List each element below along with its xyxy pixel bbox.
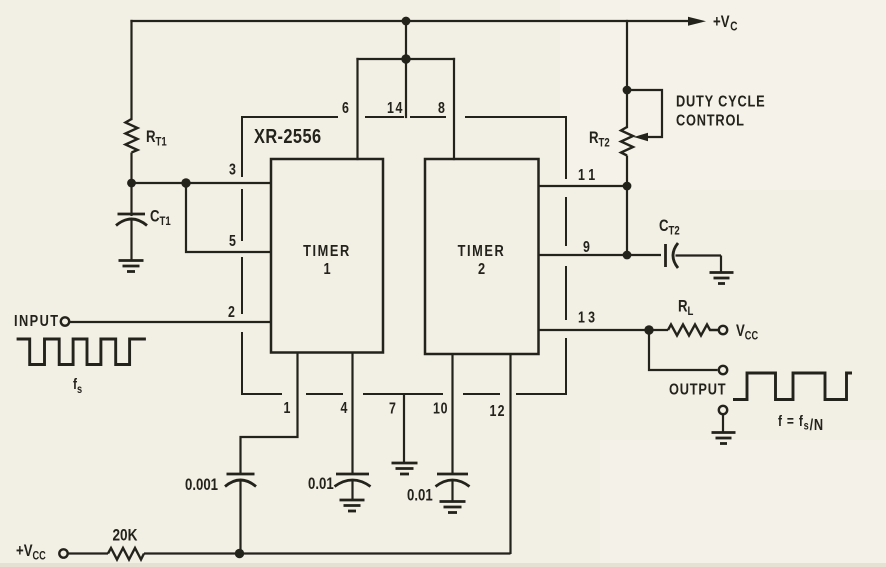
svg-text:10: 10	[433, 399, 448, 417]
svg-text:2: 2	[478, 261, 485, 279]
wire left rail down to RT1	[130, 21, 132, 119]
svg-text:14: 14	[387, 99, 404, 117]
terminal input	[61, 317, 69, 325]
svg-text:0.001: 0.001	[185, 476, 218, 495]
capacitor CT1	[116, 183, 147, 260]
node dot pin3/pin5	[181, 178, 190, 187]
wire output branch	[649, 330, 718, 370]
wire bus pins 6-14-8	[358, 58, 455, 60]
svg-text:9: 9	[583, 238, 590, 256]
node dot pin 13	[644, 325, 653, 334]
svg-text:CONTROL: CONTROL	[676, 112, 745, 130]
wire pin 12	[509, 354, 511, 554]
wire pin 5 jog	[186, 183, 271, 252]
capacitor C 0.01 (pin 4)	[335, 474, 371, 500]
wire RT2 branch from rail	[626, 21, 628, 127]
wire pin 7	[403, 394, 405, 463]
resistor RT1	[126, 119, 138, 153]
resistor 20K	[108, 548, 144, 560]
svg-text:7: 7	[389, 399, 396, 417]
timer 1 box U1a	[271, 159, 383, 353]
svg-text:5: 5	[229, 232, 236, 250]
wire bottom rail left	[68, 552, 108, 554]
svg-text:1: 1	[284, 399, 291, 417]
wire pin 8	[453, 59, 455, 159]
node dot pin 11	[623, 182, 632, 191]
node dot RT1/CT1	[127, 179, 136, 188]
svg-text:INPUT: INPUT	[14, 313, 60, 331]
wire pin 14	[405, 59, 407, 117]
node dot top rail	[402, 17, 411, 26]
svg-text:DUTY CYCLE: DUTY CYCLE	[676, 93, 765, 111]
terminal output	[719, 366, 727, 374]
ground pin 4 cap	[340, 500, 365, 511]
wire pin 11	[539, 185, 628, 187]
node dot bottom rail	[235, 549, 244, 558]
terminal +Vcc	[59, 549, 67, 557]
svg-text:1: 1	[323, 261, 330, 279]
svg-text:OUTPUT: OUTPUT	[669, 381, 726, 399]
svg-text:6: 6	[342, 99, 349, 117]
svg-text:XR-2556: XR-2556	[254, 124, 321, 147]
svg-text:20K: 20K	[113, 526, 138, 545]
svg-text:0.01: 0.01	[407, 486, 433, 505]
arrow +Vc	[688, 17, 706, 26]
potentiometer RT2	[621, 127, 633, 156]
node dot bus	[401, 54, 410, 63]
ground output	[712, 433, 736, 444]
ground below CT2	[710, 273, 734, 284]
svg-text:2: 2	[228, 303, 235, 321]
wire pin 2 input	[70, 321, 272, 323]
svg-text:4: 4	[341, 399, 348, 417]
capacitor CT2	[666, 243, 722, 272]
timer 2 box U1b	[425, 159, 539, 354]
svg-text:8: 8	[438, 99, 445, 117]
svg-text:0.01: 0.01	[308, 475, 334, 494]
ground pin 10 cap	[440, 502, 466, 513]
input waveform fs	[17, 339, 146, 365]
wire pin 1 jog	[241, 353, 298, 474]
wire top center drop	[405, 21, 407, 59]
output waveform	[733, 373, 852, 400]
node dot pot top	[623, 86, 632, 95]
resistor RL	[668, 325, 719, 336]
wire pin 3	[132, 182, 272, 184]
svg-text:TIMER: TIMER	[303, 243, 351, 261]
wire top +Vc rail	[132, 20, 690, 22]
wire RT1 to node	[130, 153, 132, 184]
wire bottom rail	[144, 552, 511, 554]
wire to output ground	[722, 415, 724, 433]
svg-text:3: 3	[229, 160, 236, 178]
wire RT2 down	[626, 156, 628, 256]
ground below CT1	[119, 261, 144, 272]
svg-text:12: 12	[490, 402, 506, 420]
terminal Vcc	[719, 326, 727, 334]
svg-text:11: 11	[578, 166, 599, 184]
svg-text:TIMER: TIMER	[458, 243, 506, 261]
wire pin 9	[539, 254, 662, 256]
capacitor C 0.001	[225, 474, 256, 554]
ground pin 7	[392, 463, 418, 474]
wire pin 13	[539, 329, 669, 331]
pot wiper loop	[627, 90, 662, 137]
wire pin 6	[356, 59, 358, 159]
node dot pin 9	[623, 251, 632, 260]
wire pin 10	[451, 354, 453, 473]
terminal output ground ref	[719, 406, 727, 414]
wire pin 4	[351, 353, 353, 474]
svg-text:13: 13	[578, 308, 598, 326]
IC package outline (phantom)	[242, 117, 566, 394]
capacitor C 0.01 (pin 10)	[436, 474, 470, 501]
